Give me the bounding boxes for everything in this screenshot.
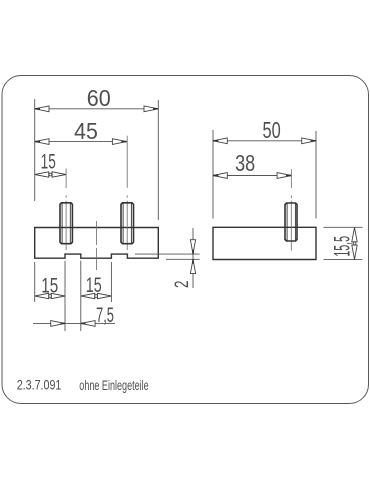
svg-text:15: 15	[86, 274, 102, 297]
dimension line 50	[213, 140, 316, 142]
svg-text:15,5: 15,5	[330, 236, 355, 257]
svg-text:38: 38	[235, 150, 255, 176]
pin P2 centerline	[126, 136, 128, 250]
arrow 15b2 left	[81, 293, 95, 298]
extension line: right part bottom (15.5 dim)	[324, 259, 363, 261]
dimension line 15 bottom-1	[35, 295, 65, 297]
arrow 50 left	[213, 138, 227, 144]
extension line: left part right edge (up)	[157, 100, 159, 220]
extension line: notch2 left edge (down)	[110, 262, 112, 302]
arrow 15b1 left	[35, 293, 49, 298]
extension line: right part left edge (up)	[212, 130, 214, 219]
arrow 38 left	[213, 173, 227, 179]
arrow 2 bottom (points up)	[190, 259, 195, 273]
arrow 7.5 left (outside, points right)	[51, 321, 65, 327]
dimension line 15.5 (vertical)	[354, 228, 356, 260]
dimension line 15 top	[35, 174, 66, 176]
extension line: left part left edge (up)	[34, 99, 36, 201]
dimension line 45	[35, 141, 127, 143]
measure box 15top	[49, 173, 52, 176]
arrow 15.5 bottom	[352, 245, 357, 259]
pin P2 inner lines	[123, 203, 131, 243]
arrow 2 top (points down)	[190, 240, 195, 254]
dimension line 38	[213, 175, 291, 177]
pin P1 inner lines	[62, 203, 70, 243]
arrow 50 right	[302, 138, 316, 144]
arrow 45 left	[35, 139, 49, 145]
svg-text:7,5: 7,5	[96, 304, 114, 327]
extension line: notch top level (2 dim)	[135, 253, 200, 255]
arrow 15top right	[52, 172, 66, 177]
drawing sheet frame	[2, 76, 369, 404]
arrow 15b1 right	[51, 293, 65, 298]
arrow 15top left	[35, 172, 49, 177]
arrow 60 right	[144, 106, 158, 112]
svg-text:2.3.7.091: 2.3.7.091	[17, 377, 62, 393]
extension line: notch1 left edge (down)	[64, 261, 66, 331]
svg-text:50: 50	[263, 117, 281, 143]
arrow tip stubs	[35, 109, 316, 324]
dimension line 60	[35, 108, 159, 110]
left part centerline	[95, 221, 97, 270]
svg-text:45: 45	[74, 118, 98, 144]
left part outline	[35, 228, 159, 259]
svg-text:60: 60	[87, 85, 111, 111]
svg-text:15: 15	[41, 150, 56, 173]
extension line: left part bottom (2 dim)	[166, 258, 200, 260]
arrow 15.5 top	[352, 228, 357, 242]
right part outline	[213, 227, 316, 259]
measure box 15b2	[95, 295, 98, 298]
arrow 60 left	[35, 106, 49, 112]
arrow 45 right	[112, 139, 126, 145]
arrow 7.5 right (outside, points left)	[81, 321, 95, 327]
svg-text:2: 2	[172, 281, 193, 289]
arrow 15b2 right	[97, 293, 111, 298]
dimension line 7.5	[33, 322, 115, 324]
extension line: part left edge (down)	[34, 262, 36, 302]
extension line: right part top (15.5 dim)	[324, 226, 363, 228]
pin P3	[285, 203, 297, 241]
arrow 38 right	[277, 173, 291, 179]
measure box 15b1	[49, 295, 52, 298]
pin P3 inner lines	[287, 203, 295, 241]
pin P2	[121, 203, 134, 244]
pin P1 centerline	[65, 169, 67, 251]
extension line: right part right edge (up)	[315, 131, 317, 219]
svg-text:15: 15	[41, 274, 58, 297]
measure box 15.5	[353, 242, 356, 245]
svg-text:ohne Einlegeteile: ohne Einlegeteile	[79, 378, 148, 393]
dimension line 15 bottom-2	[81, 295, 112, 297]
extension line: notch1 right edge (down)	[80, 261, 82, 331]
pin P3 centerline	[290, 169, 292, 250]
dimension line 2 (vertical)	[192, 228, 194, 288]
pin P1	[60, 203, 72, 244]
